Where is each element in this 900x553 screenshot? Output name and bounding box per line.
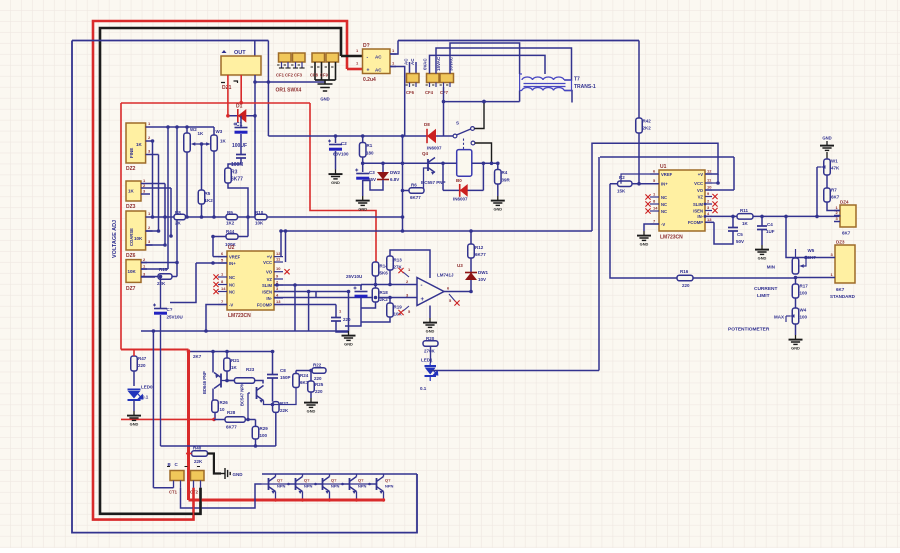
dashed actuator link to relay <box>463 139 465 150</box>
ground R25 <box>304 398 318 407</box>
svg-text:BC547 NPN: BC547 NPN <box>240 383 245 406</box>
wire: switch bottom contact down to relay net <box>475 143 492 163</box>
wire: Q6 emitter to red rail <box>383 492 385 501</box>
flyback diode loop <box>442 163 444 190</box>
wire: blue outer loop left/bottom <box>72 41 417 533</box>
wire: Q6 base from R28 <box>248 392 250 394</box>
U1 pin 1 NC <box>650 196 659 198</box>
wire: U1 -V to ground <box>644 224 659 231</box>
svg-text:W3: W3 <box>216 129 223 134</box>
wire: vertical x=268 from top bus down to DC rail <box>267 41 269 137</box>
wire: SLIM/ISEN drops to ground rail <box>294 285 296 331</box>
svg-text:25V10U: 25V10U <box>167 315 183 320</box>
svg-text:6K7: 6K7 <box>842 231 851 236</box>
resistor R1 180 <box>359 143 366 158</box>
svg-text:39R: 39R <box>502 178 511 183</box>
wire: Q4 collector to rail <box>329 474 331 477</box>
wire: red output rail y=500 (emitters) <box>189 499 384 502</box>
wires from DZ pins <box>153 126 215 128</box>
U1 pin 5 IN+ <box>650 183 659 185</box>
wire: R29 top from base net <box>255 420 257 427</box>
DZ4 pins <box>834 210 840 212</box>
transistor Q5 NPN (array) <box>349 478 351 490</box>
svg-text:CF4: CF4 <box>425 90 434 95</box>
U1 pin 7 -V <box>650 223 659 225</box>
wire: CF7 pin down to D8/switch node <box>443 87 445 136</box>
svg-text:R20: R20 <box>426 336 435 341</box>
svg-text:2K7: 2K7 <box>193 354 202 359</box>
svg-text:D1: D1 <box>236 104 243 110</box>
svg-text:10K: 10K <box>255 221 264 226</box>
svg-text:22K: 22K <box>280 408 289 413</box>
ground U1 <box>637 231 651 240</box>
connector CT2 <box>191 471 205 481</box>
ground op-amp <box>423 318 437 327</box>
resistor R6 6K77 <box>409 188 424 194</box>
U1 pin 2 SLIM <box>705 203 712 205</box>
svg-text:GND: GND <box>233 472 244 477</box>
svg-text:LED0: LED0 <box>141 385 153 390</box>
side ground GND <box>221 468 230 479</box>
wire: W1 to R7 <box>826 175 828 188</box>
svg-text:VOLTAGE ADJ: VOLTAGE ADJ <box>112 220 118 258</box>
wire: divider row y=217 <box>153 216 403 218</box>
U1 pin 3 ISEN <box>705 210 712 212</box>
wire: D1 anode wire <box>228 115 255 117</box>
svg-text:13: 13 <box>276 299 281 304</box>
wire: OUT pin3 down <box>254 75 256 217</box>
svg-text:10K: 10K <box>134 236 143 241</box>
wire: CF6 pin stubs up <box>409 62 411 74</box>
wire: R40 right black to side ground <box>208 454 222 474</box>
pins of group2 (black) to GND <box>314 62 316 80</box>
svg-text:-V: -V <box>661 222 665 227</box>
wire: U2 -V pin to ground rail <box>206 305 227 332</box>
wire: OUT pin2 red to red bus <box>240 75 242 103</box>
svg-text:FCOMP: FCOMP <box>688 220 703 225</box>
zener DW2 6.8V <box>382 163 384 173</box>
wire: x=348.5 vertical to GND <box>348 292 350 332</box>
svg-text:IN-: IN- <box>266 296 272 301</box>
svg-text:DZ1: DZ1 <box>222 85 232 91</box>
svg-text:50V: 50V <box>736 239 744 244</box>
connector CF6 (AC AC) <box>407 74 420 83</box>
wire: CT1 pin2 to transistor bases <box>181 484 262 508</box>
wire: op-amp output <box>444 291 471 293</box>
DZ6 pins <box>146 216 153 218</box>
wire: Q2 collector to rail <box>275 474 277 477</box>
resistor R25 220 <box>308 381 315 392</box>
wire: VREF loop <box>621 174 659 184</box>
svg-text:CF2: CF2 <box>285 73 294 78</box>
svg-text:C1: C1 <box>236 122 243 128</box>
U1 pin 12 +V <box>705 173 712 175</box>
svg-text:DW2: DW2 <box>390 170 400 175</box>
connector switch box C <box>312 53 325 62</box>
svg-text:R27: R27 <box>280 401 289 406</box>
svg-text:6K77: 6K77 <box>475 252 486 257</box>
resistor R16 220 <box>677 275 693 281</box>
resistor R18 2K2 <box>372 288 379 302</box>
svg-text:NC: NC <box>229 282 235 287</box>
wire: y=446 bottom of block <box>161 445 276 447</box>
svg-text:+V: +V <box>267 254 272 259</box>
svg-text:CF9: CF9 <box>320 73 329 78</box>
svg-text:R3: R3 <box>231 170 238 176</box>
resistor R21 1K <box>224 358 231 371</box>
wire: x=639 down to R42 <box>638 41 640 119</box>
svg-text:R1: R1 <box>367 143 373 148</box>
svg-text:14: 14 <box>221 286 226 291</box>
pins of group1 with terminals <box>281 62 283 68</box>
svg-text:DZ4: DZ4 <box>840 200 849 205</box>
svg-text:C4: C4 <box>767 222 773 227</box>
resistor R4 39R <box>495 170 502 185</box>
svg-text:MAX: MAX <box>774 315 784 320</box>
wire: red outer border top/left/bottom <box>93 21 347 520</box>
svg-text:CF8: CF8 <box>310 73 319 78</box>
wire: OUT pin1 red to red bus <box>227 75 229 116</box>
svg-text:GND: GND <box>640 242 649 247</box>
svg-text:0.2u4: 0.2u4 <box>363 77 376 83</box>
potentiometer W3 1K <box>211 135 218 151</box>
wire: R3 to divider row <box>228 183 248 217</box>
wire: switch top contact up to tap <box>474 102 484 129</box>
ground below cluster <box>342 331 356 340</box>
svg-text:C8: C8 <box>280 368 286 373</box>
U1 pin 6 VREF <box>650 173 659 175</box>
svg-text:TRANS-1: TRANS-1 <box>574 84 596 90</box>
svg-text:R2: R2 <box>619 175 625 180</box>
DZ3 pins <box>141 183 165 185</box>
resistor R11 1K <box>737 214 753 220</box>
wire: W1 wiper to IN- net <box>817 166 822 168</box>
svg-text:6K77: 6K77 <box>226 425 237 430</box>
wire: branch into OUT box top <box>254 41 256 59</box>
wire: long verticals to DZ7 <box>167 127 169 269</box>
connector OR1 SWX4 box B <box>293 53 306 62</box>
capacitor C2 63V100U <box>335 136 337 143</box>
connector DZ7 (10K) <box>126 260 141 283</box>
capacitor C8 150P <box>272 352 274 375</box>
svg-text:NPN: NPN <box>385 484 394 489</box>
transistor Q3 NPN (array) <box>295 478 297 490</box>
op-amp U1 LM723CN (IC box) <box>659 170 705 231</box>
switch S <box>453 134 457 138</box>
wire: Q5 base <box>221 380 234 382</box>
svg-text:AC: AC <box>404 58 409 65</box>
resistor R10 10K <box>255 214 267 220</box>
svg-text:R25: R25 <box>315 382 324 387</box>
svg-text:150P: 150P <box>280 375 291 380</box>
svg-text:IN6007: IN6007 <box>427 146 442 151</box>
resistor R5 1K2 <box>198 190 205 204</box>
svg-text:U2: U2 <box>228 245 235 251</box>
wire: Q5 collector down to R26 <box>212 389 214 401</box>
svg-text:0VAC: 0VAC <box>423 58 428 70</box>
transistor Q2 NPN (array) <box>268 478 270 490</box>
svg-text:IN+: IN+ <box>229 261 236 266</box>
svg-text:LED1: LED1 <box>421 358 433 363</box>
wire: top row to pots <box>186 127 188 133</box>
wire: Q4 emitter to red rail <box>329 492 331 501</box>
wire: 15VAC to transformer right <box>436 48 572 80</box>
wire: U2 SLIM to cluster <box>274 284 362 286</box>
svg-text:U3: U3 <box>457 263 463 268</box>
svg-text:GND: GND <box>426 329 435 334</box>
svg-text:GND: GND <box>307 409 316 414</box>
svg-text:IN-: IN- <box>697 214 703 219</box>
resistor R13 27K <box>387 256 394 270</box>
wire: Q6 emitter down <box>264 401 273 405</box>
capacitor C4 1UF <box>761 216 763 225</box>
U2 pin 13 FCOMP <box>274 304 283 306</box>
transistor Q6 BC547 NPN <box>256 387 258 399</box>
ground C3 <box>356 196 370 205</box>
resistor R23 <box>234 378 254 384</box>
wire: Q4 base from R6 <box>424 168 429 191</box>
U2 pin 5 IN+ <box>218 262 227 264</box>
svg-text:R11: R11 <box>740 208 749 213</box>
svg-text:IN6007: IN6007 <box>453 197 468 202</box>
svg-text:+V: +V <box>698 172 703 177</box>
svg-text:R17: R17 <box>800 284 809 289</box>
svg-text:Q?: Q? <box>358 478 364 483</box>
wire: R24 node <box>296 370 312 372</box>
svg-text:CF7: CF7 <box>440 90 449 95</box>
U2 pin 4 IN- <box>274 297 283 299</box>
svg-text:VREF: VREF <box>661 172 673 177</box>
svg-text:NC: NC <box>661 195 667 200</box>
svg-text:FINE: FINE <box>129 148 134 158</box>
connector DZ3 (1K) <box>126 181 141 201</box>
connector DZ6 (COARSE 10K) <box>126 211 146 250</box>
svg-text:1UF: 1UF <box>766 229 775 234</box>
svg-text:GND: GND <box>493 207 502 212</box>
resistor R8 2K <box>174 214 186 220</box>
svg-text:R6: R6 <box>411 183 417 188</box>
wire: red bus y=103 and loop down to R14 <box>121 102 310 104</box>
svg-text:R44: R44 <box>226 229 235 234</box>
U2 pin 11 VCC <box>274 261 283 263</box>
wire: LED1 net to VO of U1 <box>431 370 600 372</box>
svg-text:220: 220 <box>314 376 322 381</box>
wire: bridge top-right pin to top bus <box>390 41 398 55</box>
wire: Q5 collector to rail <box>356 474 358 477</box>
wire: bridge AC- pin down to DC rail <box>390 67 405 137</box>
svg-text:CF6: CF6 <box>406 90 415 95</box>
ground below group2 <box>324 80 326 84</box>
resistor R19 10K <box>387 303 394 317</box>
svg-text:W2: W2 <box>190 127 197 132</box>
svg-text:DZ2: DZ2 <box>126 166 136 172</box>
svg-text:10K: 10K <box>128 269 137 274</box>
wire: R13 top feedback to op-amp top <box>390 250 430 278</box>
svg-text:R8: R8 <box>175 210 181 215</box>
svg-text:R47: R47 <box>138 356 147 361</box>
svg-text:Q?: Q? <box>331 478 337 483</box>
bridge rectifier D? <box>363 49 391 74</box>
wire: red sense wire y=419.4 <box>121 418 214 420</box>
U1 pin 4 IN- <box>705 215 712 217</box>
svg-text:GND: GND <box>130 422 139 427</box>
wire: U1 VO to net <box>705 189 734 191</box>
potentiometer W1 47K <box>824 159 831 175</box>
wire: DZ4 pin2 from IN- net <box>839 215 841 218</box>
wire: D8 to switch <box>436 135 453 137</box>
svg-text:-V: -V <box>229 302 233 307</box>
wire: R16 to current-limit pots <box>693 277 796 279</box>
U2 pin 8 NC <box>218 284 227 286</box>
resistor R40 22K <box>192 451 208 457</box>
svg-text:47K: 47K <box>831 166 840 171</box>
U2 pin 3 ISEN <box>274 291 283 293</box>
wire: U2 +V/VCC up to supply rail y=231 <box>280 231 282 257</box>
svg-text:DW1: DW1 <box>478 270 488 275</box>
transistor Q5 BD646 PNP <box>220 374 222 388</box>
resistor R44 100K <box>226 234 238 240</box>
U2 pin 2 SLIM <box>274 284 283 286</box>
capacitor C1 100UF <box>235 127 248 129</box>
op-amp offset pin 5 X <box>403 306 409 311</box>
wire: U2 IN- to op-amp + input <box>274 297 417 299</box>
svg-text:2K2: 2K2 <box>643 126 652 131</box>
svg-text:180: 180 <box>366 151 374 156</box>
resistor R26 10 <box>212 400 219 412</box>
svg-text:100: 100 <box>260 433 268 438</box>
wire: red jumper to thick red vertical <box>121 349 189 351</box>
CT pins <box>173 481 175 488</box>
capacitor C7 25V10U <box>160 277 162 309</box>
svg-text:Q?: Q? <box>304 478 310 483</box>
connector OR1 SWX4 box A <box>279 53 292 62</box>
ground W4 <box>789 335 803 344</box>
svg-text:S: S <box>456 121 459 126</box>
svg-text:DZ7: DZ7 <box>126 286 136 292</box>
svg-text:+: + <box>421 297 425 303</box>
DZ2 pins 1,2,3 <box>146 126 153 128</box>
wire: wiper junction down through R5 <box>201 144 203 190</box>
svg-text:R7: R7 <box>831 188 837 193</box>
ground R4 <box>491 196 505 205</box>
wire: transformer bottom-left tap run y=101.6 <box>444 101 520 103</box>
wire: U1 IN- net y=216.4 <box>705 215 737 217</box>
connector DZ2 (FINE 1K) <box>126 123 146 163</box>
wire: black outer border <box>100 28 341 514</box>
svg-text:NC: NC <box>661 209 667 214</box>
svg-text:15K: 15K <box>617 189 626 194</box>
wire: U1 VCC <box>705 182 718 184</box>
svg-text:R42: R42 <box>643 119 652 124</box>
resistor R3 6K77 <box>225 168 232 183</box>
DZ7 pins <box>141 262 147 264</box>
svg-text:Q?: Q? <box>277 478 283 483</box>
svg-text:14: 14 <box>653 206 658 211</box>
wire: supply rail y=231 <box>281 230 592 232</box>
svg-text:R16: R16 <box>680 269 689 274</box>
svg-text:27K: 27K <box>394 265 403 270</box>
resistor R12 6K77 <box>468 244 475 258</box>
mark: minus near OUT pin1 <box>221 81 238 83</box>
wire: x=610 down to R16 <box>610 184 677 278</box>
wire: R23 to Q6 collector <box>255 381 263 384</box>
wire: red from border to bridge + input <box>347 68 363 71</box>
U2 pin 12 +V <box>274 256 283 258</box>
wire: CT2 pin red down <box>193 488 195 520</box>
svg-text:R22: R22 <box>313 363 322 368</box>
wire: to R3 <box>228 158 241 168</box>
svg-text:BC557 PNP: BC557 PNP <box>421 180 446 185</box>
resistor R42 2K2 <box>636 118 643 133</box>
wire: top bus y=40.5 left segment <box>72 40 268 42</box>
transistor Q4 BC557 PNP <box>427 159 429 171</box>
U1 X marks on VZ SLIM ISEN <box>712 194 717 199</box>
svg-text:13: 13 <box>707 217 712 222</box>
svg-text:100: 100 <box>800 291 808 296</box>
connector DZ1 OUT box <box>221 56 261 75</box>
svg-text:NC: NC <box>229 289 235 294</box>
U2 VO pin X mark <box>284 269 289 274</box>
wire: 30VAC to transformer left top <box>450 43 520 74</box>
svg-text:C?: C? <box>167 307 173 312</box>
svg-text:GND: GND <box>344 342 353 347</box>
wire: Q2 emitter to red rail <box>275 492 277 501</box>
svg-text:D?: D? <box>363 43 370 49</box>
svg-text:VZ: VZ <box>698 194 704 199</box>
connector CF4 (0VAC 15VAC) <box>427 74 440 83</box>
wire: U2 ISEN row <box>274 291 349 293</box>
U2 pin 1 NC <box>218 276 227 278</box>
svg-text:100: 100 <box>800 315 808 320</box>
DZ3 pins <box>829 257 835 259</box>
op-amp offset pin 1 X <box>403 272 409 277</box>
wire: R24 bottom from Q6 emitter <box>273 388 297 405</box>
wire: chain down from D1 <box>240 116 242 127</box>
wire: x=361 with C6 <box>360 285 362 291</box>
svg-text:GND: GND <box>320 97 329 102</box>
wire: Q6 collector to rail <box>383 474 385 477</box>
svg-text:0.1: 0.1 <box>420 386 427 391</box>
wire: transformer bottom-right stub <box>565 91 573 103</box>
wire: R25 to ground <box>310 392 312 398</box>
svg-text:220: 220 <box>682 283 690 288</box>
svg-text:6K7: 6K7 <box>831 195 840 200</box>
svg-text:OUT: OUT <box>234 50 246 56</box>
svg-text:R40: R40 <box>193 446 202 451</box>
svg-text:OR1 SWX4: OR1 SWX4 <box>276 88 302 94</box>
wire: DZ3 pin3 net <box>786 216 829 257</box>
op-amp output diagonal X <box>449 294 455 301</box>
svg-text:D8: D8 <box>424 122 430 127</box>
wire: Q3 collector to rail <box>302 474 304 477</box>
resistor R22 220 <box>312 368 326 374</box>
svg-text:GND: GND <box>358 207 367 212</box>
svg-text:R5: R5 <box>205 191 211 196</box>
svg-text:0.1: 0.1 <box>142 395 149 400</box>
wire: U2 pin5 net down to C7 area <box>170 263 196 303</box>
svg-text:C2: C2 <box>341 141 347 146</box>
U1 pin 11 VCC <box>705 182 712 184</box>
potentiometer W4 100 (MAX) <box>792 308 799 324</box>
diode D8 IN6007 <box>427 129 436 143</box>
U2 pin 14 NC <box>218 291 227 293</box>
ground C4 <box>755 245 769 254</box>
svg-text:270K: 270K <box>424 349 436 354</box>
svg-text:Q4: Q4 <box>422 151 429 156</box>
U2 pin 10 VO <box>274 271 283 273</box>
svg-text:R4: R4 <box>502 170 508 175</box>
wire: R44 row <box>213 236 226 238</box>
